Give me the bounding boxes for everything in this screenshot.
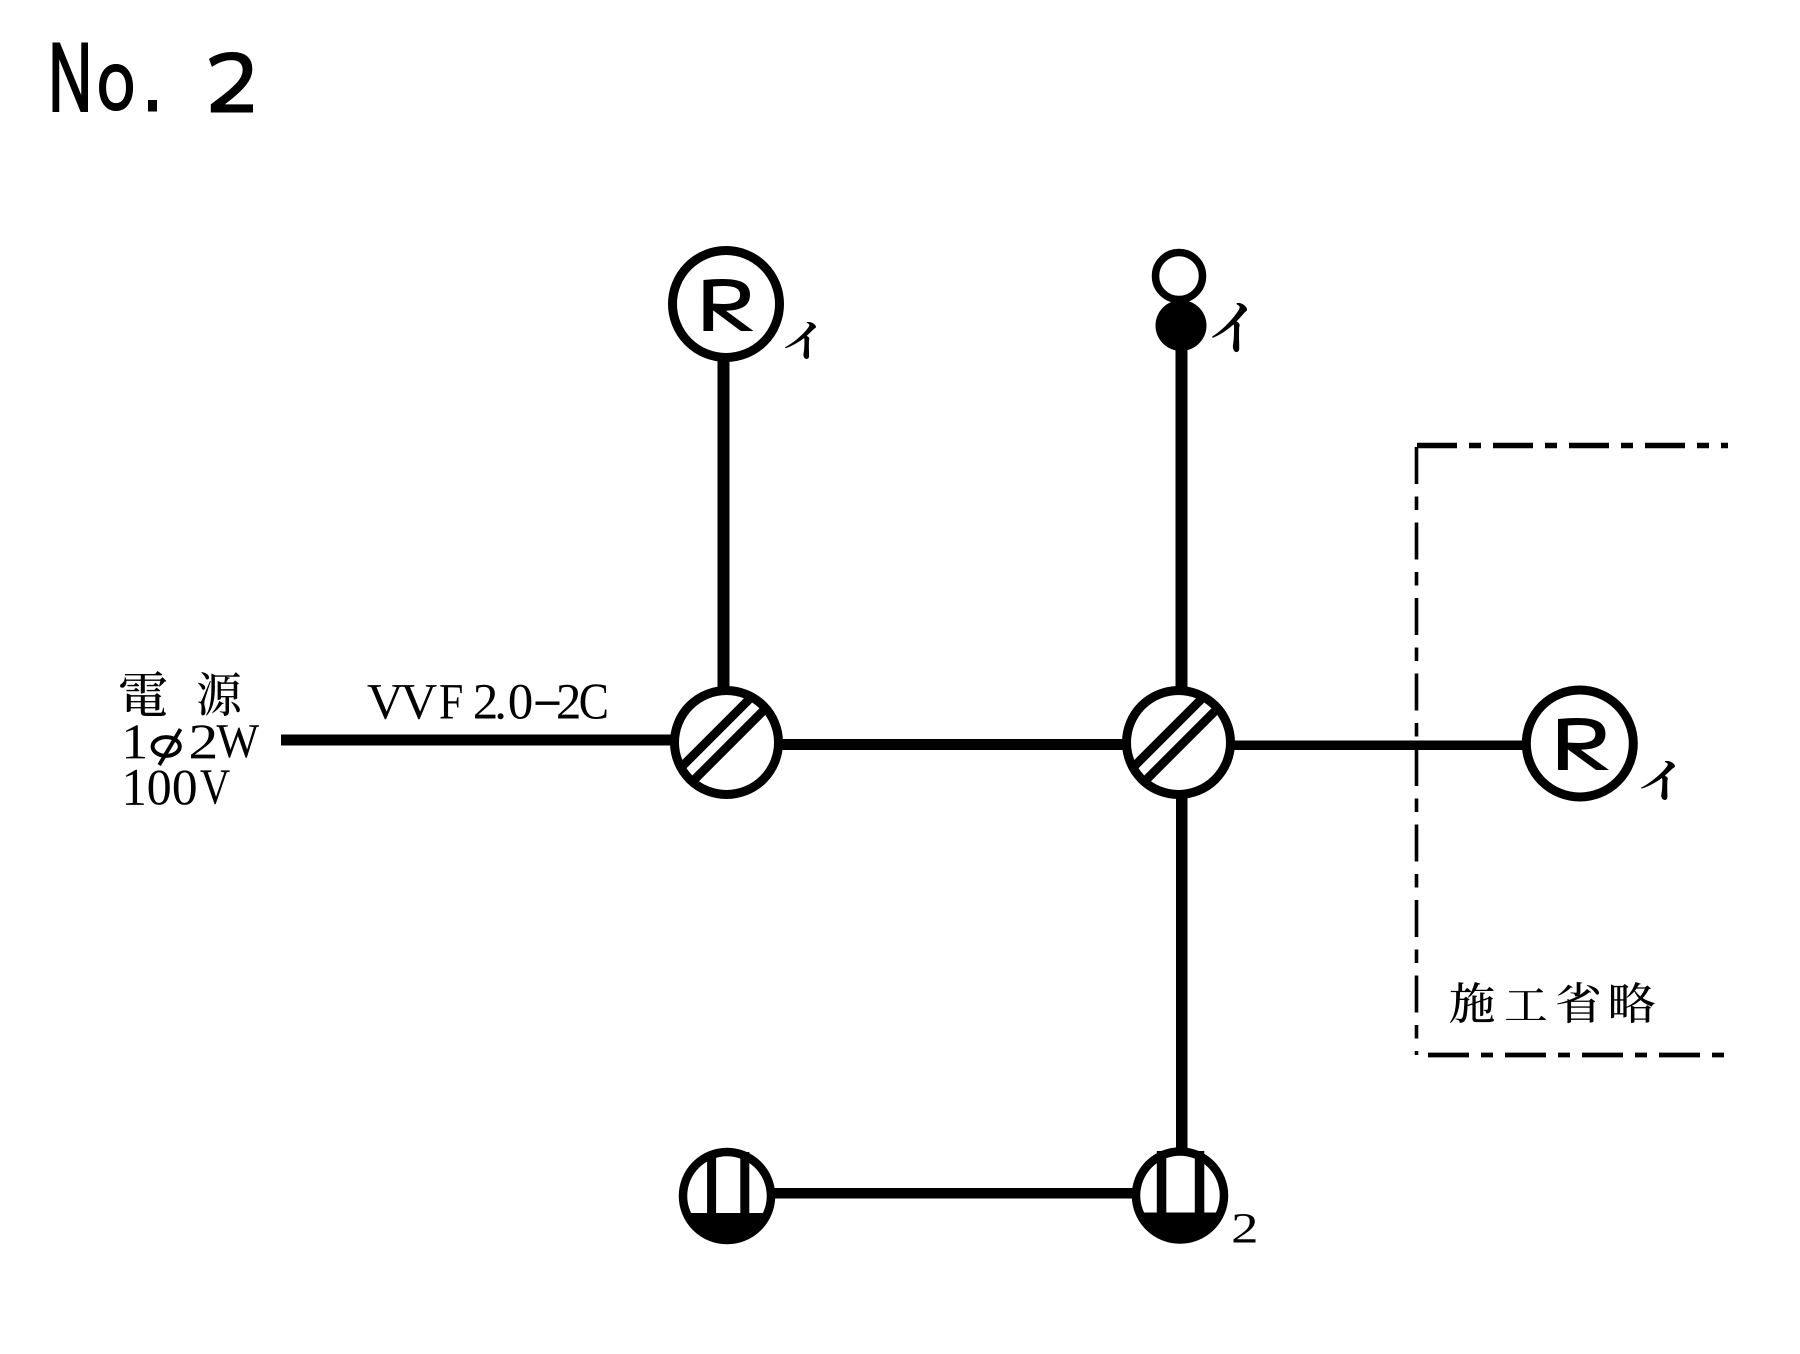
title "No. 2" (53, 42, 254, 112)
wire: outlet 1 to outlet 2 (773, 1188, 1134, 1199)
wire: junction box 2 to lamp R2 (1233, 741, 1524, 751)
outlet/receptacle symbol 2 with subscript 2 (1136, 1151, 1256, 1243)
wire: junction box 1 to junction box 2 (781, 739, 1124, 750)
label 施工省略 (1450, 982, 1655, 1023)
dashed boundary box 施工省略 (construction omitted) (1417, 446, 1729, 1056)
power source label 電源 1φ2W 100V (120, 671, 259, 805)
lamp R1 (circle R) イ (673, 251, 816, 359)
cable label VVF 2.0-2C (367, 684, 606, 719)
wire: lamp R1 to junction box 1 (718, 357, 730, 690)
wire: ceiling rose to junction box 2 (1176, 348, 1188, 690)
outlet/receptacle symbol 1 (bottom-left) (683, 1152, 771, 1242)
wire: power feed to junction box 1 (281, 735, 672, 746)
lamp R2 (circle R) イ (1526, 690, 1675, 800)
junction box J2 (hatched circle) (1118, 662, 1239, 809)
junction box J1 (hatched circle) (666, 662, 787, 809)
wire: junction box 2 to outlet 2 (1176, 795, 1188, 1150)
ceiling rose (引掛シーリング) イ (1156, 253, 1248, 353)
